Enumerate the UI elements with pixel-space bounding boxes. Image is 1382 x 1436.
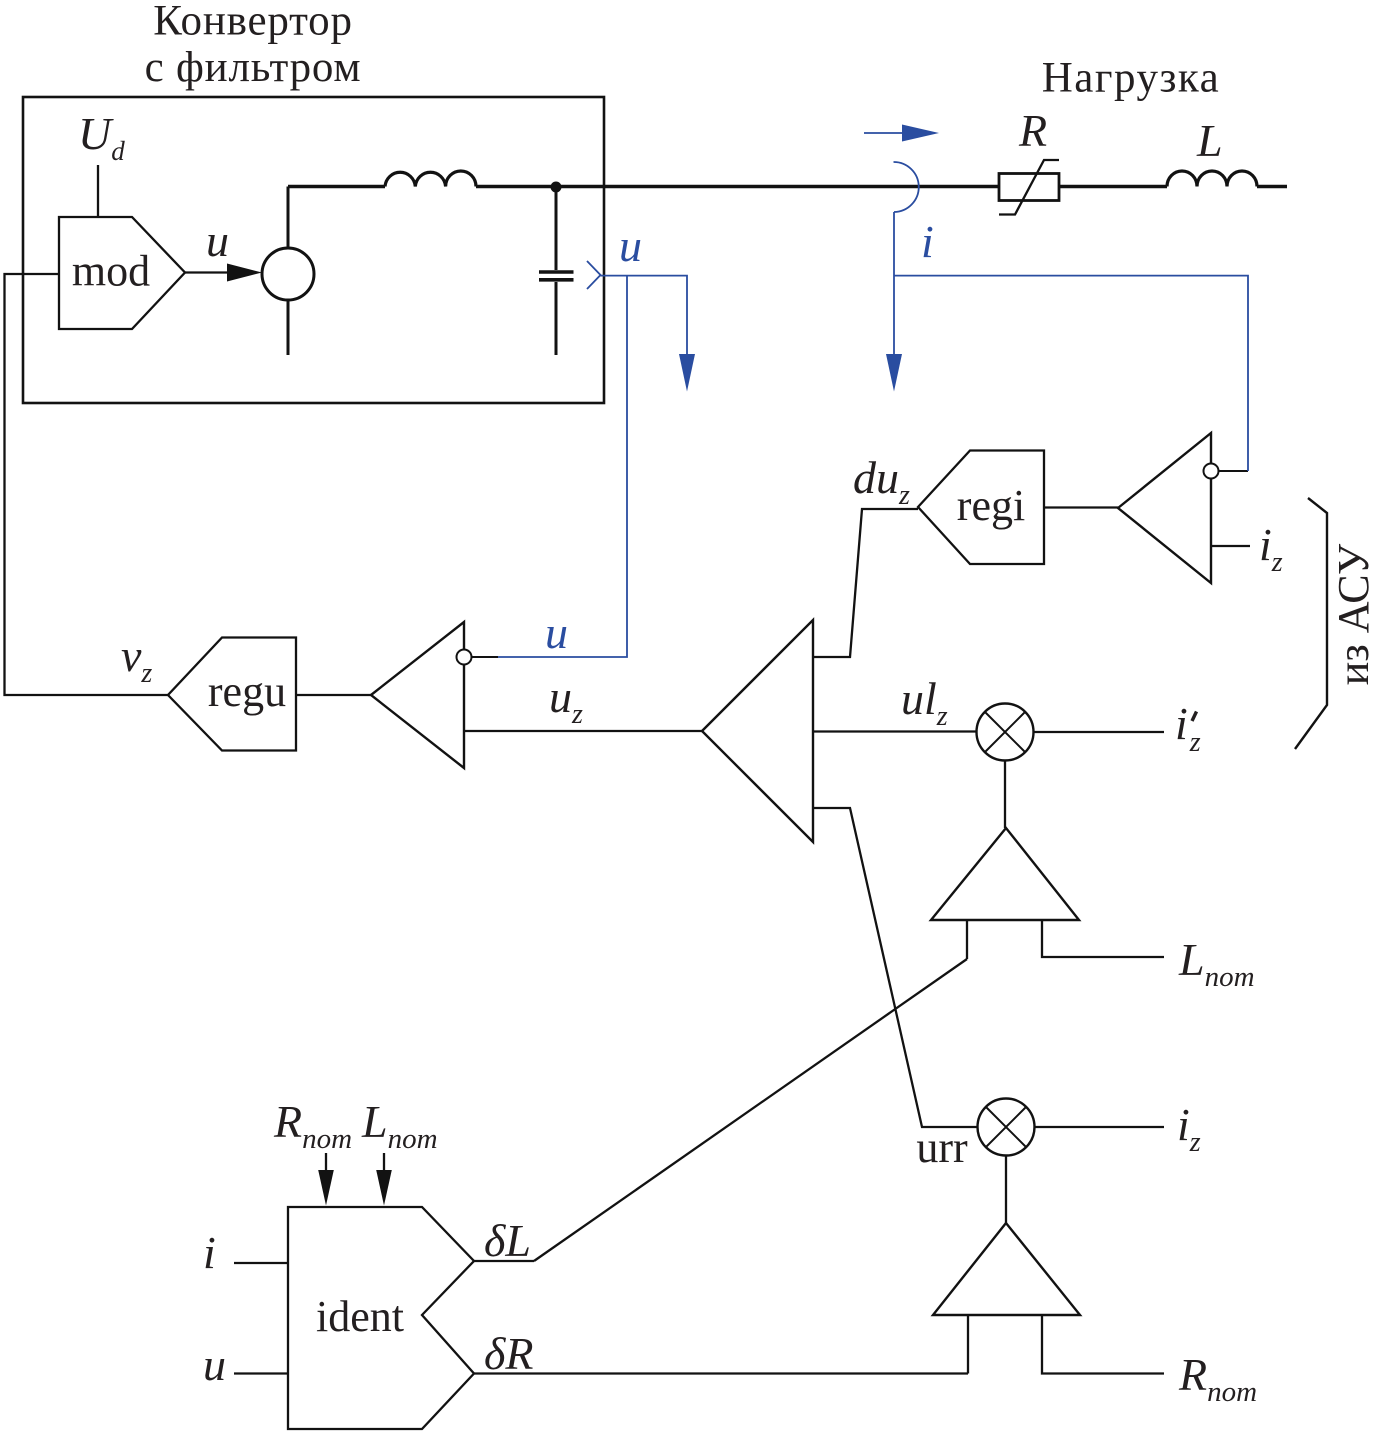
- svg-text:δL: δL: [484, 1215, 531, 1266]
- wire main bus left: [288, 185, 385, 188]
- arrow flow direction: [864, 132, 902, 134]
- arrow Rnom into ident: [325, 1153, 327, 1172]
- wire top tab to regi: [813, 509, 918, 657]
- op-amp inverter U2: [371, 622, 464, 768]
- wire u branch down: [498, 276, 627, 657]
- wire U6 left leg: [967, 1315, 969, 1374]
- wire U5 right leg Lnom: [1042, 920, 1164, 957]
- capacitor C: [555, 187, 558, 270]
- wire M1 bottom leg: [1004, 761, 1006, 829]
- block ident: [288, 1207, 474, 1429]
- modulator circle: [262, 248, 314, 300]
- svg-text:urr: urr: [916, 1123, 968, 1172]
- svg-text:Нагрузка: Нагрузка: [1042, 55, 1221, 102]
- wire M2 bottom leg: [1005, 1156, 1007, 1224]
- wire mid output ulz: [813, 730, 977, 732]
- svg-text:i: i: [921, 216, 934, 267]
- svg-text:mod: mod: [72, 247, 150, 296]
- svg-text:из АСУ: из АСУ: [1329, 543, 1378, 685]
- wire regu to inverter: [296, 694, 371, 696]
- wire capacitor bottom stub: [555, 282, 558, 355]
- inverting input circle U4: [1204, 464, 1219, 479]
- current sensor arc: [894, 162, 919, 212]
- wire main bus right: [1059, 185, 1167, 188]
- wire main bus mid: [476, 185, 999, 188]
- label i'z prime: [1192, 712, 1197, 722]
- wire mod output u: [185, 271, 238, 273]
- wire bottom tab to urr: [813, 808, 978, 1127]
- node junction dot: [551, 182, 562, 193]
- amplifier L triangle U5: [931, 828, 1079, 920]
- arrowhead u into modulator: [227, 264, 262, 282]
- arrowhead i down: [886, 354, 902, 392]
- svg-text:regi: regi: [957, 481, 1025, 530]
- bracket iz ACY: [1295, 498, 1327, 749]
- block mod U1: [59, 217, 185, 329]
- wire U6 right leg Rnom: [1042, 1315, 1164, 1374]
- wire i branch right: [894, 276, 1248, 471]
- svg-text:u: u: [206, 215, 229, 266]
- blue wires: [498, 133, 1248, 657]
- wire u input: [234, 1372, 288, 1374]
- svg-text:L: L: [1196, 115, 1223, 166]
- wire M2 output iz: [1035, 1126, 1165, 1128]
- wire deltaL stub: [474, 1260, 534, 1262]
- svg-text:u: u: [203, 1339, 226, 1390]
- svg-text:с фильтром: с фильтром: [145, 44, 362, 91]
- svg-text:u: u: [619, 220, 642, 271]
- wire mod input feedback: [5, 274, 169, 695]
- wire deltaR line: [474, 1372, 968, 1374]
- wire stub from U4 circle: [1219, 470, 1248, 472]
- svg-text:i: i: [203, 1227, 216, 1278]
- wire i sense down: [893, 212, 895, 355]
- wire modulator bottom stub: [287, 300, 290, 355]
- amplifier R triangle U6: [933, 1223, 1080, 1315]
- inverting input circle U2: [457, 650, 472, 665]
- arrow Lnom into ident: [383, 1153, 385, 1172]
- wire deltaL diagonal: [534, 959, 967, 1261]
- svg-text:Конвертор: Конвертор: [153, 0, 353, 45]
- svg-text:δR: δR: [484, 1328, 533, 1379]
- block regu: [168, 638, 296, 751]
- voltage tap chevron: [587, 261, 601, 289]
- wire regi input: [1044, 506, 1118, 508]
- wire stub from U2 circle: [472, 656, 498, 658]
- wire main bus end: [1257, 185, 1287, 188]
- inductor filter: [385, 171, 476, 187]
- wire M1 output: [1034, 731, 1165, 733]
- wire modulator top: [287, 187, 290, 249]
- divider big triangle U3: [702, 620, 813, 842]
- resistor R load box: [999, 174, 1059, 201]
- svg-text:ident: ident: [316, 1292, 404, 1341]
- wire i input: [234, 1262, 288, 1264]
- svg-text:R: R: [1018, 105, 1047, 156]
- wire u tap: [601, 276, 688, 355]
- resistor R variable diagonal: [999, 160, 1059, 215]
- wire iz input: [1211, 545, 1250, 547]
- arrowhead flow: [902, 125, 939, 142]
- arrowhead u down: [679, 354, 695, 392]
- multiplier M2 urr: [978, 1099, 1035, 1156]
- svg-text:u: u: [545, 607, 568, 658]
- inductor L load: [1167, 171, 1257, 187]
- wire uz input: [464, 730, 702, 732]
- block regi: [918, 451, 1044, 565]
- multiplier M1: [977, 704, 1034, 761]
- wire U5 left leg: [966, 920, 968, 959]
- wire Ud stub: [97, 165, 99, 217]
- op-amp inverter U4: [1118, 433, 1211, 583]
- svg-text:regu: regu: [208, 667, 286, 716]
- converter box: [23, 97, 604, 403]
